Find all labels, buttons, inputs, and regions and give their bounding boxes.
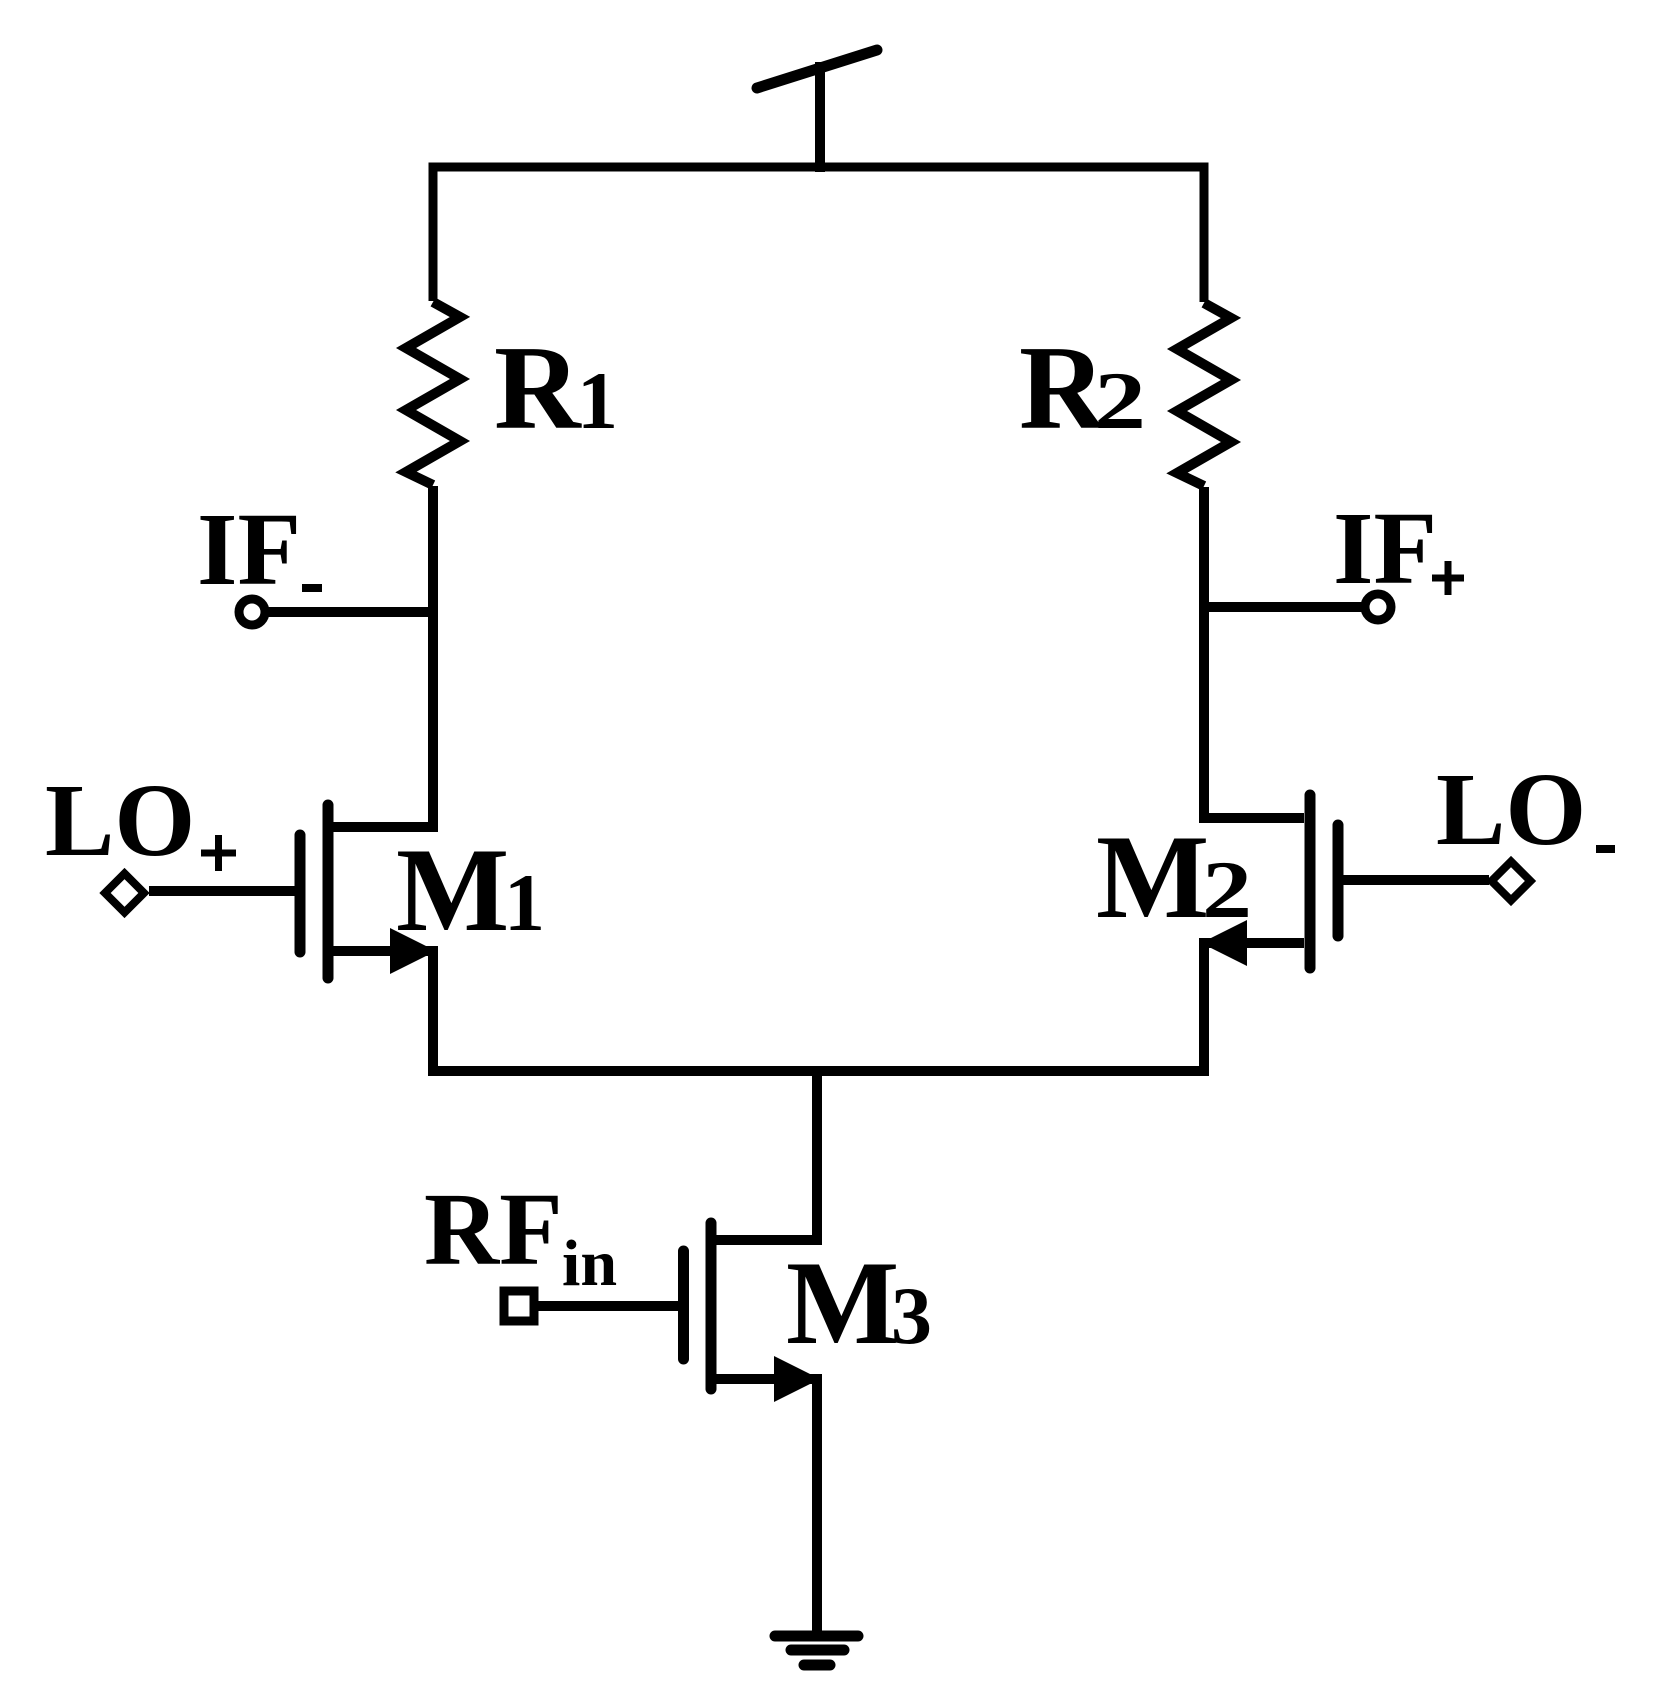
svg-text:in: in — [562, 1227, 617, 1300]
wire top rail — [433, 167, 1204, 302]
terminal LO- diamond — [1492, 862, 1531, 901]
svg-text:M: M — [396, 823, 509, 956]
wire IF+ lead — [1204, 602, 1364, 612]
svg-text:LO: LO — [1436, 752, 1586, 867]
wire right branch (resistor to M2 drain) — [1204, 487, 1304, 818]
terminal IF+ circle — [1365, 594, 1391, 620]
label IF+ — [1333, 491, 1464, 606]
svg-text:LO: LO — [45, 763, 195, 878]
wire bottom rail — [433, 943, 1204, 1071]
resistor R1 — [406, 302, 460, 485]
svg-text:M: M — [1096, 810, 1209, 943]
svg-text:IF: IF — [1333, 491, 1437, 606]
svg-text:2: 2 — [1202, 844, 1252, 935]
label M2 — [1096, 810, 1252, 943]
svg-text:2: 2 — [1094, 355, 1146, 446]
svg-text:IF: IF — [197, 492, 301, 607]
label M3 — [786, 1236, 932, 1369]
label R2 — [1019, 321, 1146, 454]
terminal IF- circle — [239, 599, 265, 625]
label R1 — [494, 321, 618, 454]
label LO+ — [45, 763, 236, 878]
svg-text:3: 3 — [891, 1270, 932, 1361]
wire left branch (resistor to M1 drain) — [333, 486, 433, 827]
svg-text:RF: RF — [424, 1172, 563, 1287]
transistor M1 — [149, 805, 436, 1071]
terminal LO+ diamond — [105, 874, 144, 913]
svg-text:R: R — [494, 321, 582, 454]
wire IF- lead — [266, 607, 433, 617]
wire tail node down to M3 drain — [716, 1071, 817, 1240]
transistor M2 — [1201, 795, 1489, 1071]
svg-text:M: M — [786, 1236, 899, 1369]
label RFin — [424, 1172, 617, 1300]
resistor R2 — [1177, 303, 1231, 486]
terminal RFin square — [504, 1291, 534, 1321]
svg-text:1: 1 — [577, 355, 618, 446]
label M1 — [396, 823, 545, 956]
ground — [775, 1636, 858, 1665]
svg-text:1: 1 — [504, 857, 545, 948]
label LO- — [1436, 752, 1615, 867]
label IF- — [197, 492, 322, 607]
transistor M3 — [537, 1223, 820, 1636]
power supply VDD symbol — [757, 50, 877, 172]
